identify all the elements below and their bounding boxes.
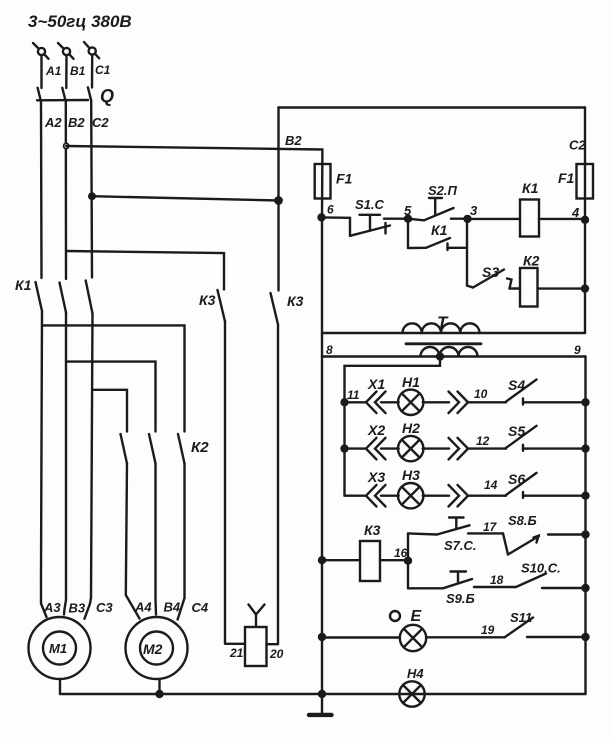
coil K1: [520, 200, 539, 237]
switch S5: [505, 426, 586, 451]
label 12: [476, 434, 490, 448]
label B2: [68, 115, 85, 130]
label S6: [508, 471, 525, 487]
wire right control riser lower: [584, 357, 586, 695]
wire node3 riser down to S3: [466, 219, 468, 286]
label coil K3: [364, 522, 381, 538]
label 14: [484, 478, 498, 492]
svg-text:К2: К2: [191, 439, 209, 456]
label H2: [402, 420, 420, 436]
wire X1 to lamp H1: [381, 401, 399, 403]
svg-text:4: 4: [571, 205, 580, 220]
svg-text:К1: К1: [522, 180, 539, 196]
lamp H3: [398, 483, 423, 508]
wire phase C: Q to K1 contact: [90, 101, 93, 278]
svg-text:А1: А1: [45, 64, 62, 78]
label H1: [402, 374, 420, 390]
svg-text:S1.С: S1.С: [355, 197, 385, 212]
label coil K1: [522, 180, 539, 196]
coil K3: [360, 541, 380, 581]
label F1 left: [336, 171, 353, 187]
wire B2 to control fuse: [66, 146, 322, 150]
wire S10.C to right riser: [542, 587, 586, 589]
svg-text:К1: К1: [15, 277, 32, 293]
svg-text:В2: В2: [68, 115, 85, 130]
label coil K2: [523, 253, 540, 269]
connector X1 right: [449, 392, 469, 414]
wire Y right terminal 20: [267, 643, 279, 645]
wire right control riser upper: [584, 108, 586, 334]
svg-text:К2: К2: [523, 253, 540, 269]
svg-text:S2.П: S2.П: [428, 183, 458, 198]
svg-text:К1: К1: [431, 222, 448, 238]
svg-text:S10.С.: S10.С.: [521, 561, 561, 576]
contact K3 left blade: [218, 290, 226, 644]
wire lamp E to S11: [426, 636, 505, 638]
svg-text:5: 5: [404, 203, 412, 218]
node row2 left: [342, 446, 348, 452]
svg-text:10: 10: [474, 387, 488, 401]
label 19: [481, 623, 495, 637]
ground: [309, 694, 332, 715]
svg-text:Х3: Х3: [367, 469, 385, 485]
wire coil K3 to node 16: [380, 559, 408, 561]
svg-text:S3: S3: [482, 264, 499, 280]
label 18: [490, 573, 504, 587]
svg-text:S6: S6: [508, 471, 525, 487]
svg-text:Е: Е: [411, 608, 423, 625]
svg-text:S5: S5: [508, 423, 525, 439]
label C2: [92, 115, 109, 130]
label S1.C: [355, 197, 385, 212]
svg-text:21: 21: [229, 646, 244, 660]
node K2/right riser: [582, 286, 588, 292]
contact K1 aux branch: [408, 219, 467, 250]
wire E row left: [322, 636, 400, 638]
node C2 riser junction: [275, 197, 281, 203]
svg-text:М2: М2: [143, 641, 163, 657]
lamp H4: [399, 681, 424, 706]
label X1: [367, 376, 385, 392]
transformer T primary wire: [322, 332, 585, 334]
svg-text:Н3: Н3: [402, 467, 420, 483]
wire K2 pole3 feed from phase A: [42, 325, 185, 431]
label F1 right: [558, 170, 575, 186]
node 4: [582, 217, 588, 223]
label K2: [191, 439, 209, 456]
lamp H1: [398, 390, 423, 415]
wire secondary line 8-9: [322, 355, 586, 357]
label S3: [482, 264, 499, 280]
svg-text:S9.Б: S9.Б: [446, 591, 475, 606]
transformer T primary winding: [403, 323, 480, 333]
wire bottom common line: [60, 693, 586, 695]
label 4: [571, 205, 580, 220]
svg-text:В3: В3: [69, 601, 86, 616]
wire M1 phase C entry: [85, 598, 92, 619]
switch Q pole C blade: [88, 87, 91, 100]
label 6: [327, 203, 334, 217]
row1 wire left: [345, 401, 366, 403]
label 21: [229, 646, 244, 660]
label 20: [269, 647, 284, 661]
label E: [411, 608, 423, 625]
svg-text:Q: Q: [100, 86, 114, 106]
motor M1: [29, 617, 91, 679]
label 10: [474, 387, 488, 401]
button S2.P (NO start): [408, 198, 468, 220]
label S10.C: [521, 561, 561, 576]
svg-text:С2: С2: [569, 138, 586, 153]
label C2 right: [569, 138, 586, 153]
wire control top line: [279, 106, 586, 108]
node 6: [319, 214, 325, 220]
node E row right: [583, 634, 589, 640]
contactor K2 pole1 blade: [121, 434, 128, 464]
svg-text:12: 12: [476, 434, 490, 448]
node M2 bottom junction: [157, 691, 163, 697]
svg-text:Т: Т: [437, 313, 449, 332]
wire M1 phase A entry: [41, 576, 47, 617]
svg-text:А4: А4: [134, 600, 152, 615]
svg-text:С2: С2: [92, 115, 109, 130]
wire phase A: Q to K1 contact: [40, 101, 43, 278]
wire M2 phase C entry: [178, 598, 185, 620]
connector X2 right: [449, 438, 469, 460]
connector X1: [366, 392, 386, 414]
svg-text:В2: В2: [285, 133, 302, 148]
svg-text:S4: S4: [508, 377, 525, 393]
switch S4: [505, 380, 586, 405]
label C1: [95, 63, 111, 77]
svg-text:С1: С1: [95, 63, 111, 77]
switch Q pole B blade: [62, 88, 65, 101]
node row1 left: [342, 399, 348, 405]
label H4: [407, 666, 424, 681]
label M2: [143, 641, 163, 657]
svg-text:9: 9: [574, 343, 581, 357]
wire K3 left feed from phase B: [66, 251, 224, 290]
row2 wire left: [345, 447, 366, 449]
label A3: [43, 600, 61, 615]
lamp H2: [398, 436, 423, 461]
switch S11: [505, 618, 586, 638]
switch Q pole A blade: [38, 88, 41, 101]
label 8: [326, 343, 333, 357]
contactor K2 pole3 blade: [178, 434, 185, 598]
label A4: [134, 600, 152, 615]
contactor K2 pole2 blade: [149, 434, 156, 600]
svg-text:К3: К3: [364, 522, 381, 538]
node 16: [405, 558, 411, 564]
node C2 tap: [89, 193, 95, 199]
wire left riser to coil K3: [322, 559, 360, 561]
svg-text:16: 16: [394, 546, 408, 560]
wire branch riser at node 16: [407, 533, 409, 588]
svg-text:14: 14: [484, 478, 498, 492]
svg-text:К3: К3: [199, 292, 216, 308]
wire phase A from terminal to Q: [40, 56, 42, 88]
wire Y left terminal 21: [225, 643, 245, 645]
svg-text:S11: S11: [510, 610, 532, 625]
label 5: [404, 203, 412, 218]
svg-text:Н2: Н2: [402, 420, 420, 436]
svg-text:S8.Б: S8.Б: [508, 513, 537, 528]
connector X3: [366, 485, 386, 507]
wire node 18: [474, 586, 516, 588]
wire connector to S5: [468, 447, 507, 449]
svg-text:11: 11: [347, 388, 360, 402]
wire node6 contact to node 5: [384, 217, 408, 219]
wire K2 pole2 feed from phase B: [66, 362, 156, 432]
indicator circle before E: [390, 611, 400, 621]
label 16: [394, 546, 408, 560]
wire X3 to lamp H3: [381, 495, 399, 497]
svg-text:Н4: Н4: [407, 666, 424, 681]
label S4: [508, 377, 525, 393]
svg-text:В1: В1: [70, 64, 86, 78]
label B1: [70, 64, 86, 78]
label S11: [510, 610, 532, 625]
label B4: [164, 600, 181, 615]
svg-text:3: 3: [470, 203, 478, 218]
node B2 tap: [64, 143, 69, 148]
wire X2 to lamp H2: [381, 447, 399, 449]
svg-text:17: 17: [483, 520, 498, 534]
button S7.C upper branch: [408, 518, 470, 535]
wire phase C from terminal to Q: [91, 56, 94, 88]
wire K3 right riser up to control top: [277, 108, 279, 201]
wire M2 phase B entry: [154, 600, 157, 615]
svg-text:А3: А3: [43, 600, 61, 615]
transformer T secondary winding: [421, 347, 478, 356]
node row3 right: [583, 493, 589, 499]
connector X2: [366, 438, 386, 460]
svg-text:А2: А2: [44, 115, 62, 130]
label H3: [402, 467, 420, 483]
label S8.B: [508, 513, 537, 528]
svg-text:3~50гц 380В: 3~50гц 380В: [28, 12, 132, 31]
label K3 left: [199, 292, 216, 308]
label K3 right: [287, 293, 304, 309]
node lamp E row left: [319, 634, 325, 640]
label X2: [367, 422, 385, 438]
node 3: [465, 216, 471, 222]
title: supply label 3~50гц 380В: [28, 12, 132, 31]
label S9.B: [446, 591, 475, 606]
contact S3: [467, 270, 520, 289]
wire M1 bottom stub: [59, 679, 61, 694]
label X3: [367, 469, 385, 485]
wire connector to S6: [468, 495, 507, 497]
contactor K1 pole C: [86, 281, 93, 599]
label M1: [49, 641, 67, 656]
wire K3 right riser (C2 down to contact): [277, 201, 279, 291]
contactor K1 pole B: [60, 283, 67, 601]
wire node 17: [468, 532, 503, 534]
electromagnet Y symbol: [245, 605, 267, 667]
wire phase B: Q to K1 contact: [65, 101, 68, 279]
node bottom/left-riser junction: [319, 691, 325, 697]
label S5: [508, 423, 525, 439]
svg-text:6: 6: [327, 203, 334, 217]
switch S6: [505, 473, 586, 498]
wire connector to S4: [468, 401, 507, 403]
svg-text:К3: К3: [287, 293, 304, 309]
label B3: [69, 601, 86, 616]
wire coil K1 to node 4: [539, 218, 585, 220]
wire lamp H1 to connector: [423, 401, 449, 403]
svg-text:S7.С.: S7.С.: [444, 538, 477, 553]
label 17: [483, 520, 498, 534]
node K3 row left: [319, 557, 325, 563]
wire M1 phase B entry: [64, 600, 66, 615]
node S8 right: [583, 532, 589, 538]
button S9.B lower branch: [408, 572, 472, 589]
wire M2 phase A entry: [126, 464, 140, 619]
contact S8.B: [503, 533, 539, 554]
transformer T core: [406, 342, 481, 345]
svg-text:С3: С3: [96, 600, 113, 615]
label Q: [100, 86, 114, 106]
row3 wire left corner: [345, 495, 366, 497]
motor M2: [126, 617, 188, 679]
wire secondary tap to lamp feeder: [345, 357, 441, 496]
svg-text:F1: F1: [558, 170, 575, 186]
wire node3 to coil K1: [468, 218, 521, 220]
svg-text:Х1: Х1: [367, 376, 385, 392]
node S10 right: [583, 585, 589, 591]
wire C2 to right riser: [92, 196, 279, 200]
svg-text:С4: С4: [192, 600, 209, 615]
terminal C1: [84, 42, 99, 58]
switch Q tie bar: [37, 99, 88, 102]
contact S10.C: [516, 574, 546, 588]
wire coil K2 to right riser: [538, 287, 586, 289]
svg-text:F1: F1: [336, 171, 353, 187]
label A1: [45, 64, 62, 78]
node secondary tap: [437, 354, 443, 360]
wire phase B from terminal to Q: [65, 56, 68, 88]
label 9: [574, 343, 581, 357]
node row2 right: [583, 446, 589, 452]
label S7.C: [444, 538, 477, 553]
wire M2 bottom stub: [158, 679, 160, 694]
label C4: [192, 600, 209, 615]
svg-text:20: 20: [269, 647, 284, 661]
svg-text:8: 8: [326, 343, 333, 357]
contactor K1 pole A: [36, 282, 43, 576]
label S2.P: [428, 183, 458, 198]
contactor K1 main contacts label: [15, 277, 32, 293]
svg-text:В4: В4: [164, 600, 181, 615]
connector X3 right: [449, 485, 469, 507]
svg-text:18: 18: [490, 573, 504, 587]
wire S8.B to right riser: [548, 533, 586, 535]
terminal A1: [33, 43, 49, 59]
button S1.C (NC stop): [322, 215, 390, 236]
label K1 aux: [431, 222, 448, 238]
svg-text:Н1: Н1: [402, 374, 420, 390]
label A2: [44, 115, 62, 130]
terminal B1: [58, 43, 74, 59]
fuse F1 right: [577, 164, 594, 199]
coil K2: [520, 268, 538, 307]
svg-text:19: 19: [481, 623, 495, 637]
node 5: [405, 216, 411, 222]
label B2 wire: [285, 133, 302, 148]
wire lamp H2 to connector: [423, 447, 449, 449]
wire K2 pole1 feed from phase C: [92, 390, 127, 432]
label 11: [347, 388, 360, 402]
label 3: [470, 203, 478, 218]
contact K3 right blade: [271, 293, 279, 644]
wire left control riser: [321, 218, 323, 694]
fuse F1 left: [315, 150, 331, 218]
wire lamp H3 to connector: [423, 495, 449, 497]
label T: [437, 313, 449, 332]
node row1 right: [583, 399, 589, 405]
svg-text:Х2: Х2: [367, 422, 385, 438]
label C3: [96, 600, 113, 615]
lamp E: [400, 625, 426, 651]
svg-text:М1: М1: [49, 641, 67, 656]
